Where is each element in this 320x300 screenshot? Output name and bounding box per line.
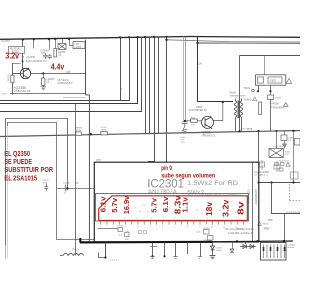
node: bus junction dots left <box>22 38 71 41</box>
svg-text:A2001 HAMA: A2001 HAMA <box>239 128 253 131</box>
svg-text:6: 6 <box>162 227 164 229</box>
svg-text:L2350: L2350 <box>75 46 82 49</box>
svg-text:C009 CB2 1u: C009 CB2 1u <box>273 146 287 148</box>
fuse RESET R.PA <box>75 127 83 135</box>
ground below R2357 <box>41 85 46 89</box>
svg-text:u: u <box>112 218 113 220</box>
wire: third top bus from x=197 <box>198 42 301 44</box>
svg-text:DY: DY <box>199 62 203 66</box>
svg-text:9: 9 <box>199 227 201 229</box>
svg-text:AUD DRIVER FZ: AUD DRIVER FZ <box>189 109 208 112</box>
svg-text:E2350: E2350 <box>2 39 11 43</box>
svg-text:8: 8 <box>187 227 189 229</box>
svg-text:TSPEAKING: TSPEAKING <box>271 106 285 109</box>
svg-text:3.2v: 3.2v <box>5 51 19 61</box>
wire: vertical x=145 <box>145 37 147 134</box>
fuse COTS R.PA <box>100 127 107 135</box>
resistor R2357 <box>42 73 56 85</box>
svg-text:TRF: TRF <box>43 182 48 184</box>
wire: Q031 collector to top <box>214 102 223 120</box>
svg-text:3: 3 <box>125 227 127 229</box>
red highlight box around IC pins <box>99 196 248 221</box>
svg-text:TRUS: TRUS <box>244 87 251 90</box>
transistor Q2350 <box>20 68 30 79</box>
svg-text:SUBSTITUIR POR: SUBSTITUIR POR <box>4 167 53 174</box>
capacitor C2354 <box>43 53 48 59</box>
svg-text:4.4v: 4.4v <box>51 61 65 71</box>
wire: collector line to right <box>31 73 86 75</box>
svg-text:u: u <box>151 218 152 220</box>
svg-text:pin 9: pin 9 <box>161 166 172 172</box>
svg-text:EL 2SA1015: EL 2SA1015 <box>4 175 37 182</box>
svg-text:AUDIO: AUDIO <box>244 99 252 102</box>
svg-text:BJ29A: BJ29A <box>288 246 295 249</box>
pin circle at jack <box>252 89 255 92</box>
svg-text:8v: 8v <box>236 201 246 215</box>
svg-text:SE PUEDE: SE PUEDE <box>4 159 32 166</box>
IC pin stubs short row <box>101 220 244 224</box>
svg-text:1.5Wx2 For RD: 1.5Wx2 For RD <box>187 181 239 187</box>
wire: right boundary of subcircuit <box>85 40 87 95</box>
wire: drop to caps <box>33 39 35 48</box>
node: dot on link <box>66 187 68 189</box>
svg-text:R2352: R2352 <box>8 74 10 81</box>
svg-text:1.8k: 1.8k <box>191 125 196 127</box>
svg-text:HPB: HPB <box>268 219 273 222</box>
node: pin12 dot <box>22 60 24 62</box>
svg-text:5.7v: 5.7v <box>150 197 159 213</box>
svg-text:16: 16 <box>143 205 146 207</box>
board box bottom-left outer <box>6 119 68 246</box>
wire: gray pair to Q031 <box>183 36 185 120</box>
svg-text:H013: H013 <box>263 224 269 226</box>
connector box right edge <box>295 139 301 146</box>
wire: nested L line 3 <box>0 37 138 104</box>
svg-text:2SC: 2SC <box>285 154 290 156</box>
svg-text:u: u <box>207 218 208 220</box>
svg-text:⌜+11v: ⌜+11v <box>263 227 270 231</box>
svg-text:BA3V DIGONG T17: BA3V DIGONG T17 <box>26 60 48 63</box>
wire: vertical x=252.5 <box>252 163 254 242</box>
node: collector wire dot <box>42 72 44 74</box>
svg-text:SIEG: SIEG <box>270 79 276 83</box>
wire: nested L line 1 <box>120 37 122 100</box>
svg-text:1u: 1u <box>134 207 136 209</box>
thick bottom bus <box>80 241 211 244</box>
svg-text:AV: snd +SB0082 vol 1dB: AV: snd +SB0082 vol 1dB <box>225 228 254 231</box>
svg-text:u: u <box>175 218 176 220</box>
svg-text:5.7v: 5.7v <box>110 197 119 213</box>
svg-text:18v: 18v <box>204 202 214 216</box>
IC package outline <box>96 194 249 221</box>
ground below C040 <box>182 126 187 132</box>
capacitor C2010 <box>44 184 48 192</box>
svg-text:DY CABLE 1u: DY CABLE 1u <box>254 174 269 177</box>
resistor near transformer <box>259 102 262 115</box>
corner wire near x=107 <box>105 242 107 257</box>
bottom verticals with grounds <box>153 243 201 257</box>
capacitor C5001 <box>65 185 67 192</box>
wire: jog at y=228 <box>98 228 119 230</box>
svg-text:TA2001: TA2001 <box>203 227 211 230</box>
svg-text:R.PA: R.PA <box>101 129 106 132</box>
component cluster inside board right <box>204 230 214 241</box>
wire: vertical x=149 <box>149 37 151 134</box>
wire: vertical x=166.5 to IC board <box>166 37 168 163</box>
svg-text:AF: AF <box>76 182 80 185</box>
svg-text:+Q2350: +Q2350 <box>26 55 36 59</box>
svg-text:sube segun volumen: sube segun volumen <box>161 173 215 179</box>
svg-text:BL001: BL001 <box>230 92 238 95</box>
tiny gray marks inside red box <box>108 205 237 215</box>
wire: corner at x=197 to audio transformer <box>198 36 234 101</box>
wire: base left to R2352 branch <box>13 73 24 75</box>
wire: left branch vertical <box>12 63 14 95</box>
svg-text:u: u <box>194 218 195 220</box>
svg-text:103: 103 <box>41 52 46 55</box>
resistor R2356 <box>54 39 66 57</box>
svg-text:6.1v: 6.1v <box>99 196 108 213</box>
wire: jack pins down <box>258 85 260 91</box>
small parts right cluster <box>260 160 281 172</box>
right component cluster upper <box>281 131 294 183</box>
svg-text:+JP800: +JP800 <box>288 245 296 247</box>
wire: R2350 to Q2350 base node <box>22 53 24 68</box>
svg-text:R2302: R2302 <box>118 226 125 228</box>
node: dots on bottom bus <box>210 240 285 243</box>
wire: top main bus <box>0 37 300 40</box>
connector JP800 hatched <box>261 243 287 261</box>
svg-text:1.1v: 1.1v <box>180 196 189 212</box>
node: dots right on bus <box>238 130 294 133</box>
svg-text:HPSSK: HPSSK <box>271 103 280 106</box>
dashed stub <box>110 259 119 261</box>
svg-text:u: u <box>124 218 125 220</box>
svg-text:5u: 5u <box>108 213 110 215</box>
dashed outline right edge <box>290 184 301 201</box>
pin mark row under labels <box>100 218 239 220</box>
wire: vertical x=158 <box>158 37 160 134</box>
small parts left of connector <box>230 242 234 253</box>
svg-text:EXAMPLE JY2: EXAMPLE JY2 <box>254 171 269 174</box>
wire: vertical x=239 <box>239 56 241 131</box>
svg-text:C30A: C30A <box>288 137 294 140</box>
svg-text:u: u <box>223 218 224 220</box>
warning triangle at jack <box>286 78 291 83</box>
transformer T001 <box>234 99 243 132</box>
board box bottom-left inner <box>8 123 95 240</box>
capacitor C2301 with ground <box>210 242 216 259</box>
svg-text:4R0: 4R0 <box>125 239 130 241</box>
wire: jack feed <box>264 56 266 75</box>
svg-text:473: 473 <box>119 235 123 237</box>
svg-text:u: u <box>238 218 239 220</box>
svg-text:6.1v: 6.1v <box>161 196 170 213</box>
component cluster inside board left <box>118 228 129 237</box>
diode D-01 box <box>268 95 274 100</box>
svg-text:40: 40 <box>196 210 199 212</box>
small parts row y165 <box>275 162 290 171</box>
svg-text:AN17807A: AN17807A <box>148 190 178 196</box>
resistor R2352 <box>8 74 14 83</box>
svg-text:1000u: 1000u <box>216 250 223 252</box>
wire: right horizontal y=182.7 <box>259 182 301 184</box>
wire: corner down to y=213.9 <box>272 183 301 214</box>
node: dot on audio bus <box>90 133 92 135</box>
svg-text:4: 4 <box>137 227 139 229</box>
svg-text:4.31p Mid: setu(line 32: 4.31p Mid: setu(line 32 <box>228 232 254 235</box>
svg-text:A1203(B)-DY: A1203(B)-DY <box>254 189 258 205</box>
capacitor C2355 <box>48 54 52 59</box>
svg-text:OTP: OTP <box>96 159 101 162</box>
wire: x=89.5 pin feed <box>88 95 90 242</box>
svg-text:TRUS: TRUS <box>275 98 281 100</box>
inductor L2356 crossed box <box>58 39 66 50</box>
resistor R2350 box <box>9 47 25 54</box>
wire: audio bottom bus y=131..136 <box>0 131 300 137</box>
svg-text:7: 7 <box>174 227 176 229</box>
svg-text:C2301: C2301 <box>216 248 223 250</box>
warning triangle small <box>284 103 288 107</box>
svg-text:K100: K100 <box>285 152 291 154</box>
svg-text:u: u <box>100 218 101 220</box>
svg-text:4C309/309-3B: 4C309/309-3B <box>286 212 300 214</box>
wire: nested L line 2 <box>0 37 130 100</box>
svg-text:1B: 1B <box>58 54 61 57</box>
svg-text:9PB0048-C3: 9PB0048-C3 <box>202 135 216 138</box>
svg-text:2250: 2250 <box>2 93 8 95</box>
wire: vertical x=75 from y=104 <box>75 104 77 256</box>
node: dot on y=102 <box>222 101 224 103</box>
svg-text:EL Q2350: EL Q2350 <box>4 151 30 158</box>
svg-text:40: 40 <box>139 211 142 213</box>
svg-text:1.1s: 1.1s <box>181 142 186 144</box>
svg-text:12: 12 <box>21 55 24 59</box>
svg-text:SNRMATCHING: SNRMATCHING <box>230 94 246 97</box>
connector box K100 <box>269 131 283 157</box>
diodes on wire bottom right <box>240 241 256 248</box>
wire: vertical x=154 with corner <box>148 37 155 162</box>
node: base node dot <box>184 120 186 122</box>
wire: subcircuit bottom line <box>10 93 86 95</box>
wire: x=284.5 drop to bus <box>284 214 286 242</box>
node: bus dots <box>119 36 199 45</box>
capacitor C040 <box>182 121 188 127</box>
svg-text:1k: 1k <box>64 193 67 195</box>
svg-text:u: u <box>182 218 183 220</box>
wire: vertical x=258.5 upper <box>258 131 260 162</box>
wire: y=188.3 link <box>57 188 95 190</box>
svg-text:u: u <box>163 218 164 220</box>
svg-text:2SB764A-1B: 2SB764A-1B <box>14 89 30 93</box>
svg-text:3.9: 3.9 <box>288 140 292 142</box>
svg-text:R.PA: R.PA <box>76 129 81 132</box>
svg-text:16.9v: 16.9v <box>122 195 131 214</box>
svg-text:1u16: 1u16 <box>196 232 201 234</box>
wire: down to audio bus <box>270 100 272 131</box>
transistor Q031 <box>202 116 214 129</box>
coil Z0001 <box>60 253 84 255</box>
svg-text:+C5001: +C5001 <box>63 183 72 185</box>
svg-text:1u: 1u <box>219 210 221 212</box>
wire: hp jack top box edge <box>240 55 301 57</box>
svg-text:5u: 5u <box>147 211 149 213</box>
svg-text:10: 10 <box>211 227 214 229</box>
svg-text:1B: 1B <box>46 80 49 83</box>
wire: nested L line 4 <box>0 37 142 112</box>
pin numbers <box>100 227 239 229</box>
svg-text:R010 C011: R010 C011 <box>279 161 290 163</box>
headphone jack J-SIEG <box>256 75 286 85</box>
resistor R03 <box>186 118 201 127</box>
red annotation text block <box>4 151 53 182</box>
svg-text:3.2v: 3.2v <box>221 199 231 217</box>
svg-text:5: 5 <box>150 227 152 229</box>
wire: R2350 to bus <box>22 40 24 47</box>
svg-text:Z0001: Z0001 <box>72 249 79 252</box>
svg-text:R2351(R)-B.P: R2351(R)-B.P <box>58 82 73 85</box>
IC2301 board box <box>94 162 258 242</box>
wire: second top bus from x=166 <box>167 40 301 42</box>
connector L2350 box <box>70 39 86 49</box>
svg-text:C35: C35 <box>66 71 71 74</box>
small marks <box>139 231 147 234</box>
svg-text:u: u <box>136 218 137 220</box>
